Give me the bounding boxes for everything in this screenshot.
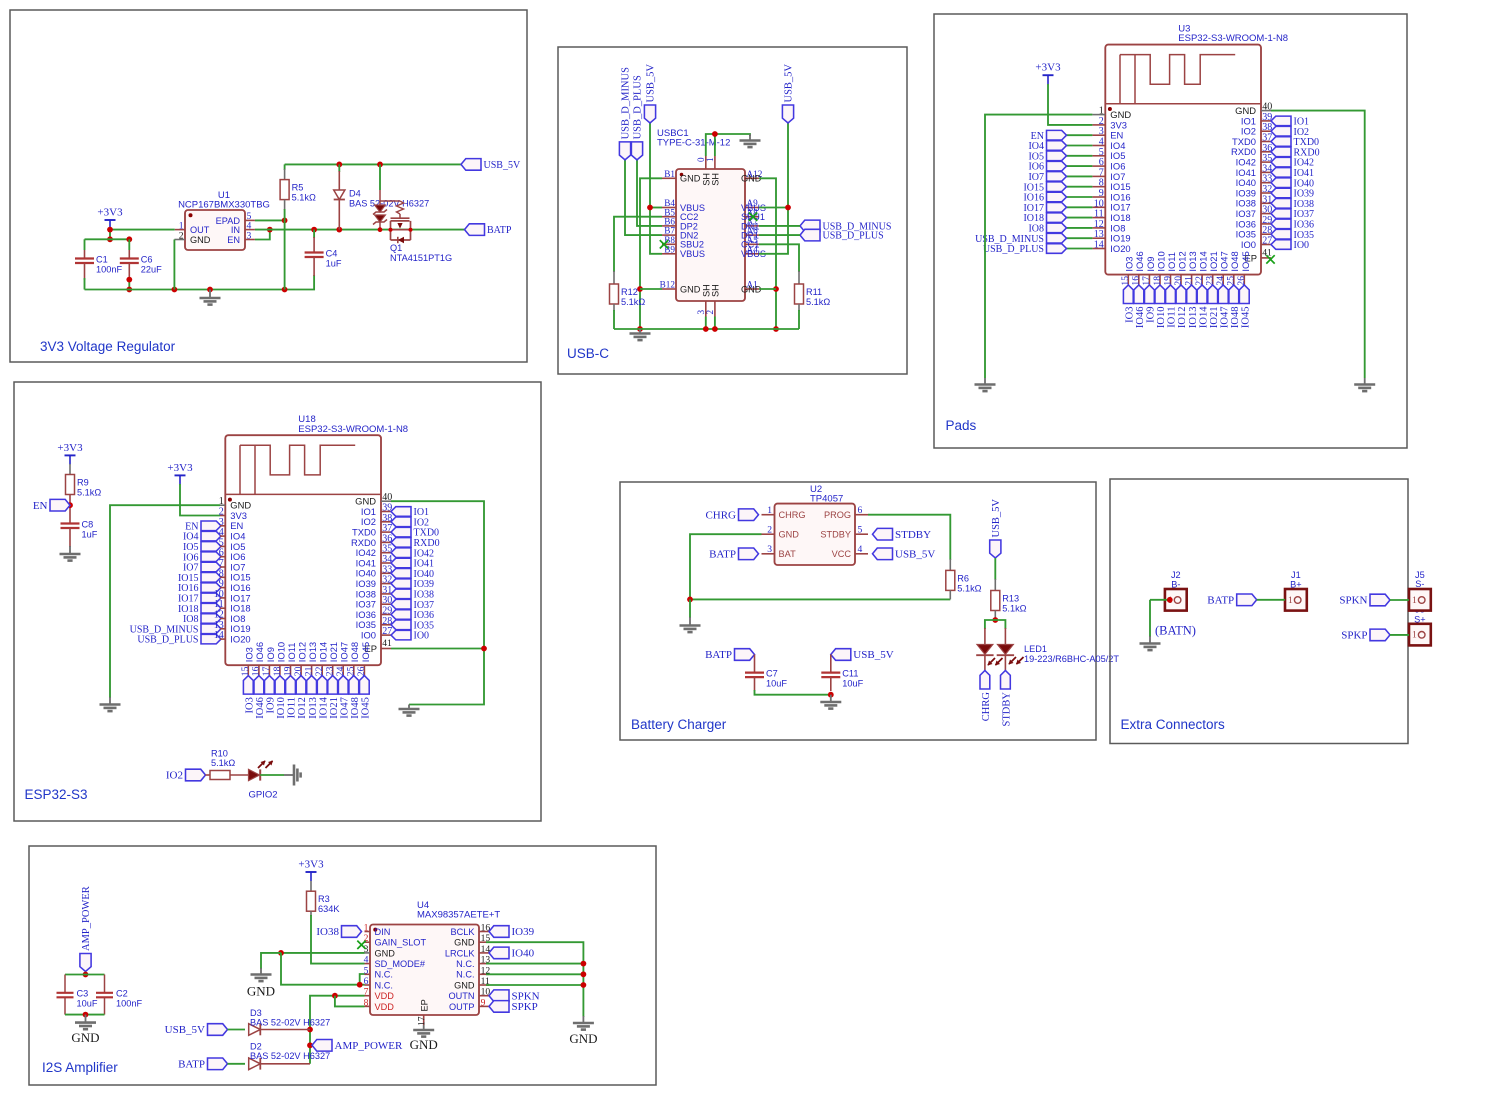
svg-text:17: 17: [1141, 276, 1152, 286]
svg-text:2: 2: [179, 230, 184, 241]
svg-text:GND: GND: [680, 284, 701, 294]
svg-text:ESP32-S3-WROOM-1-N8: ESP32-S3-WROOM-1-N8: [298, 424, 408, 435]
svg-text:N.C.: N.C.: [456, 970, 474, 980]
svg-text:IO14: IO14: [318, 642, 329, 662]
svg-text:IO21: IO21: [328, 642, 339, 662]
svg-text:BAS 52-02V H6327: BAS 52-02V H6327: [250, 1051, 330, 1061]
svg-text:IO9: IO9: [1146, 307, 1157, 323]
svg-text:IO0: IO0: [1294, 240, 1310, 251]
svg-text:BAT: BAT: [779, 549, 797, 559]
svg-text:TP4057: TP4057: [810, 494, 843, 505]
svg-text:100nF: 100nF: [116, 999, 142, 1009]
svg-text:C8: C8: [82, 519, 94, 529]
svg-text:OUTP: OUTP: [449, 1002, 475, 1012]
svg-text:N.C.: N.C.: [375, 970, 393, 980]
svg-text:IO13: IO13: [307, 642, 318, 662]
svg-text:1: 1: [364, 923, 369, 934]
svg-text:C3: C3: [77, 989, 89, 999]
svg-text:IO48: IO48: [1230, 307, 1241, 329]
svg-text:SH: SH: [710, 284, 720, 297]
svg-text:IO46: IO46: [1134, 251, 1145, 271]
svg-text:IO12: IO12: [296, 642, 307, 662]
svg-text:C7: C7: [766, 668, 778, 678]
svg-text:USB_D_PLUS: USB_D_PLUS: [823, 231, 884, 242]
svg-text:14: 14: [214, 630, 224, 641]
svg-text:17: 17: [261, 666, 272, 676]
svg-text:IO11: IO11: [1166, 252, 1177, 272]
svg-text:EP: EP: [420, 999, 430, 1011]
svg-text:1: 1: [705, 157, 715, 162]
svg-text:IO13: IO13: [308, 697, 319, 719]
svg-text:N.C.: N.C.: [456, 959, 474, 969]
svg-text:IO9: IO9: [1145, 256, 1156, 271]
svg-text:USB_5V: USB_5V: [784, 64, 795, 103]
svg-text:SPKP: SPKP: [512, 1001, 538, 1013]
svg-text:IO48: IO48: [349, 642, 360, 662]
svg-text:C2: C2: [116, 989, 128, 999]
svg-text:AMP_POWER: AMP_POWER: [335, 1040, 404, 1052]
svg-text:+3V3: +3V3: [1035, 62, 1061, 74]
svg-text:IO3: IO3: [1125, 307, 1136, 323]
svg-text:20: 20: [1173, 276, 1184, 286]
svg-text:1uF: 1uF: [326, 258, 342, 268]
svg-text:IO45: IO45: [1240, 251, 1251, 271]
svg-text:IO21: IO21: [1208, 251, 1219, 271]
svg-text:21: 21: [303, 666, 314, 676]
svg-text:+3V3: +3V3: [167, 462, 193, 474]
svg-text:GND: GND: [454, 980, 475, 990]
svg-text:IO45: IO45: [1241, 307, 1252, 329]
svg-text:SBU2: SBU2: [680, 240, 704, 250]
svg-text:1: 1: [1412, 630, 1417, 641]
svg-text:3: 3: [767, 544, 772, 555]
svg-text:N.C.: N.C.: [375, 980, 393, 990]
svg-text:9: 9: [481, 997, 486, 1008]
svg-text:3V3 Voltage Regulator: 3V3 Voltage Regulator: [40, 339, 176, 354]
svg-text:IO12: IO12: [297, 697, 308, 719]
svg-text:IO14: IO14: [1198, 251, 1209, 271]
svg-text:25: 25: [1226, 276, 1237, 286]
svg-text:LED1: LED1: [1024, 644, 1047, 654]
svg-text:R5: R5: [292, 183, 304, 193]
svg-text:SPKN: SPKN: [1339, 595, 1367, 607]
svg-text:SPKP: SPKP: [1341, 630, 1367, 642]
svg-text:20: 20: [293, 666, 304, 676]
svg-text:IO9: IO9: [265, 647, 276, 662]
svg-text:GAIN_SLOT: GAIN_SLOT: [375, 938, 427, 948]
svg-text:GND: GND: [680, 174, 701, 184]
svg-text:VCC: VCC: [832, 549, 852, 559]
svg-text:IO20: IO20: [1110, 243, 1130, 254]
svg-text:CHRG: CHRG: [705, 509, 736, 521]
svg-text:R12: R12: [621, 287, 638, 297]
svg-text:26: 26: [1236, 276, 1247, 286]
svg-text:1uF: 1uF: [82, 529, 98, 539]
svg-text:PROG: PROG: [824, 510, 851, 520]
svg-text:2: 2: [767, 525, 772, 536]
svg-text:BATP: BATP: [1207, 594, 1234, 606]
svg-text:GND: GND: [247, 984, 275, 999]
svg-text:IO21: IO21: [329, 697, 340, 719]
svg-text:IO0: IO0: [361, 630, 376, 641]
svg-text:USB_5V: USB_5V: [165, 1024, 205, 1036]
svg-text:23: 23: [325, 666, 336, 676]
svg-text:STDBY: STDBY: [895, 529, 931, 541]
svg-text:USB_D_MINUS: USB_D_MINUS: [621, 67, 632, 140]
svg-text:R13: R13: [1002, 594, 1019, 604]
svg-text:IO46: IO46: [255, 697, 266, 719]
svg-text:BCLK: BCLK: [450, 927, 475, 937]
svg-text:BATP: BATP: [178, 1058, 205, 1070]
svg-text:J2: J2: [1171, 570, 1181, 580]
svg-text:Pads: Pads: [946, 418, 977, 433]
svg-text:BATP: BATP: [709, 548, 736, 560]
svg-text:C6: C6: [141, 254, 153, 264]
svg-text:5.1kΩ: 5.1kΩ: [1002, 604, 1026, 614]
svg-text:USB-C: USB-C: [567, 346, 609, 361]
svg-text:C4: C4: [326, 248, 338, 258]
svg-text:15: 15: [240, 666, 251, 676]
svg-text:IO10: IO10: [276, 697, 287, 719]
svg-text:5.1kΩ: 5.1kΩ: [957, 583, 981, 593]
svg-text:USB_5V: USB_5V: [484, 160, 521, 171]
svg-text:D4: D4: [349, 189, 361, 199]
svg-text:ESP32-S3-WROOM-1-N8: ESP32-S3-WROOM-1-N8: [1178, 33, 1288, 44]
svg-text:10uF: 10uF: [766, 678, 787, 688]
svg-text:GND: GND: [410, 1037, 438, 1052]
svg-text:IO39: IO39: [512, 926, 535, 938]
svg-text:EN: EN: [227, 235, 240, 245]
svg-text:GND: GND: [779, 530, 800, 540]
svg-text:22: 22: [1194, 276, 1205, 286]
svg-text:22: 22: [314, 666, 325, 676]
svg-text:6: 6: [858, 505, 863, 516]
svg-text:VDD: VDD: [375, 1002, 395, 1012]
svg-text:(BATN): (BATN): [1155, 624, 1196, 638]
svg-text:R9: R9: [77, 478, 89, 488]
svg-text:NTA4151PT1G: NTA4151PT1G: [390, 253, 452, 263]
svg-text:ESP32-S3: ESP32-S3: [25, 787, 88, 802]
svg-text:SD_MODE#: SD_MODE#: [375, 959, 426, 969]
svg-text:USB_5V: USB_5V: [895, 548, 935, 560]
svg-text:MAX98357AETE+T: MAX98357AETE+T: [417, 910, 500, 921]
svg-text:IO11: IO11: [286, 643, 297, 663]
svg-text:S-: S-: [1415, 579, 1424, 589]
svg-text:GND: GND: [71, 1030, 99, 1045]
svg-text:Q1: Q1: [390, 243, 402, 253]
svg-text:IO10: IO10: [1155, 251, 1166, 271]
svg-text:IO3: IO3: [245, 697, 256, 713]
svg-text:IO47: IO47: [339, 697, 350, 719]
svg-text:USB_D_PLUS: USB_D_PLUS: [137, 635, 198, 646]
svg-text:BATP: BATP: [487, 225, 512, 236]
svg-text:LRCLK: LRCLK: [445, 948, 475, 958]
svg-text:14: 14: [1094, 240, 1104, 251]
svg-text:IN: IN: [231, 225, 240, 235]
svg-text:BAS 52-02V H6327: BAS 52-02V H6327: [250, 1018, 330, 1028]
svg-text:Battery Charger: Battery Charger: [631, 717, 727, 732]
svg-text:GND: GND: [454, 938, 475, 948]
svg-text:5.1kΩ: 5.1kΩ: [292, 193, 316, 203]
svg-text:VDD: VDD: [375, 991, 395, 1001]
svg-text:IO14: IO14: [1198, 306, 1209, 328]
svg-text:1: 1: [1412, 595, 1417, 606]
svg-text:IO38: IO38: [316, 926, 339, 938]
svg-text:GND: GND: [741, 284, 762, 294]
svg-text:IO0: IO0: [414, 631, 430, 642]
svg-text:IO2: IO2: [166, 770, 183, 782]
svg-text:GND: GND: [569, 1031, 597, 1046]
svg-text:IO0: IO0: [1241, 239, 1256, 250]
svg-text:USB_D_PLUS: USB_D_PLUS: [983, 244, 1044, 255]
svg-text:10uF: 10uF: [842, 678, 863, 688]
svg-text:24: 24: [335, 666, 346, 676]
svg-text:GND: GND: [741, 174, 762, 184]
svg-text:IO47: IO47: [1219, 251, 1230, 271]
svg-text:+3V3: +3V3: [97, 207, 123, 219]
svg-text:R11: R11: [806, 287, 822, 297]
svg-text:4: 4: [858, 544, 863, 555]
svg-text:100nF: 100nF: [96, 264, 122, 274]
svg-text:IO21: IO21: [1209, 307, 1220, 329]
svg-text:BATP: BATP: [705, 649, 732, 661]
svg-text:24: 24: [1215, 276, 1226, 286]
svg-text:23: 23: [1205, 276, 1216, 286]
svg-text:STDBY: STDBY: [1002, 692, 1013, 727]
svg-text:IO3: IO3: [1124, 256, 1135, 271]
svg-text:18: 18: [272, 666, 283, 676]
svg-text:10uF: 10uF: [77, 999, 98, 1009]
svg-text:5.1kΩ: 5.1kΩ: [211, 758, 235, 768]
svg-text:D2: D2: [250, 1042, 262, 1052]
svg-text:GND: GND: [190, 235, 211, 245]
svg-text:GPIO2: GPIO2: [248, 790, 277, 801]
svg-text:IO40: IO40: [512, 948, 535, 960]
svg-text:B12: B12: [660, 280, 676, 290]
svg-text:19-223/R6BHC-A05/2T: 19-223/R6BHC-A05/2T: [1024, 654, 1119, 664]
svg-text:TYPE-C-31-M-12: TYPE-C-31-M-12: [657, 138, 730, 149]
svg-text:BAS 52-02V H6327: BAS 52-02V H6327: [349, 199, 429, 209]
svg-text:IO47: IO47: [1220, 307, 1231, 329]
svg-text:USB_5V: USB_5V: [853, 649, 893, 661]
svg-text:OUT: OUT: [190, 225, 210, 235]
svg-text:IO10: IO10: [1156, 307, 1167, 329]
svg-text:16: 16: [1131, 276, 1142, 286]
svg-text:1: 1: [1288, 595, 1293, 606]
svg-text:IO13: IO13: [1188, 307, 1199, 329]
svg-text:DIN: DIN: [375, 927, 391, 937]
svg-text:I2S Amplifier: I2S Amplifier: [42, 1060, 118, 1075]
svg-text:IO45: IO45: [361, 697, 372, 719]
svg-text:R10: R10: [211, 749, 228, 759]
svg-text:18: 18: [1152, 276, 1163, 286]
svg-text:IO11: IO11: [1167, 307, 1178, 328]
svg-text:B1: B1: [664, 169, 675, 179]
svg-text:25: 25: [346, 666, 357, 676]
svg-text:17: 17: [417, 1016, 428, 1026]
svg-text:C1: C1: [96, 254, 108, 264]
svg-text:IO20: IO20: [230, 634, 250, 645]
svg-text:IO10: IO10: [275, 642, 286, 662]
svg-text:IO13: IO13: [1187, 251, 1198, 271]
svg-text:SH: SH: [710, 173, 720, 186]
svg-text:C11: C11: [842, 668, 858, 678]
svg-text:+3V3: +3V3: [298, 859, 324, 871]
svg-text:IO3: IO3: [244, 647, 255, 662]
svg-text:IO48: IO48: [1229, 251, 1240, 271]
svg-text:STDBY: STDBY: [820, 530, 851, 540]
svg-text:OUTN: OUTN: [448, 991, 474, 1001]
svg-text:R3: R3: [318, 894, 330, 904]
svg-text:19: 19: [1162, 276, 1173, 286]
svg-text:CHRG: CHRG: [981, 692, 992, 722]
svg-text:19: 19: [282, 666, 293, 676]
svg-text:5: 5: [858, 525, 863, 536]
svg-text:15: 15: [1120, 276, 1131, 286]
svg-text:IO47: IO47: [339, 642, 350, 662]
svg-text:USB_D_PLUS: USB_D_PLUS: [633, 75, 644, 139]
svg-text:IO9: IO9: [266, 697, 277, 713]
svg-text:CHRG: CHRG: [779, 510, 806, 520]
svg-text:5.1kΩ: 5.1kΩ: [806, 297, 830, 307]
svg-text:IO12: IO12: [1177, 307, 1188, 329]
svg-text:USB_5V: USB_5V: [991, 499, 1002, 538]
svg-text:IO46: IO46: [1135, 307, 1146, 329]
svg-text:IO12: IO12: [1177, 251, 1188, 271]
svg-text:22uF: 22uF: [141, 264, 162, 274]
svg-text:EN: EN: [33, 500, 48, 512]
svg-text:NCP167BMX330TBG: NCP167BMX330TBG: [178, 200, 270, 211]
svg-text:21: 21: [1183, 276, 1194, 286]
svg-text:IO46: IO46: [254, 642, 265, 662]
svg-text:IO48: IO48: [350, 697, 361, 719]
svg-text:USB_5V: USB_5V: [646, 64, 657, 103]
svg-text:VBUS: VBUS: [680, 249, 705, 259]
svg-text:26: 26: [356, 666, 367, 676]
svg-text:Extra Connectors: Extra Connectors: [1121, 717, 1226, 732]
svg-text:IO45: IO45: [360, 642, 371, 662]
svg-text:1: 1: [767, 505, 772, 516]
svg-text:GND: GND: [375, 948, 396, 958]
svg-text:2: 2: [705, 310, 715, 315]
svg-text:J1: J1: [1291, 570, 1301, 580]
svg-text:D3: D3: [250, 1008, 262, 1018]
svg-text:3: 3: [247, 230, 252, 241]
svg-text:16: 16: [251, 666, 262, 676]
svg-text:634K: 634K: [318, 904, 340, 914]
svg-text:41: 41: [382, 638, 392, 649]
svg-text:+3V3: +3V3: [57, 442, 83, 454]
svg-text:5.1kΩ: 5.1kΩ: [77, 488, 101, 498]
svg-text:IO11: IO11: [287, 697, 298, 718]
svg-text:R6: R6: [957, 573, 969, 583]
svg-text:5.1kΩ: 5.1kΩ: [621, 297, 645, 307]
svg-text:IO14: IO14: [318, 696, 329, 718]
svg-text:AMP_POWER: AMP_POWER: [81, 886, 92, 951]
